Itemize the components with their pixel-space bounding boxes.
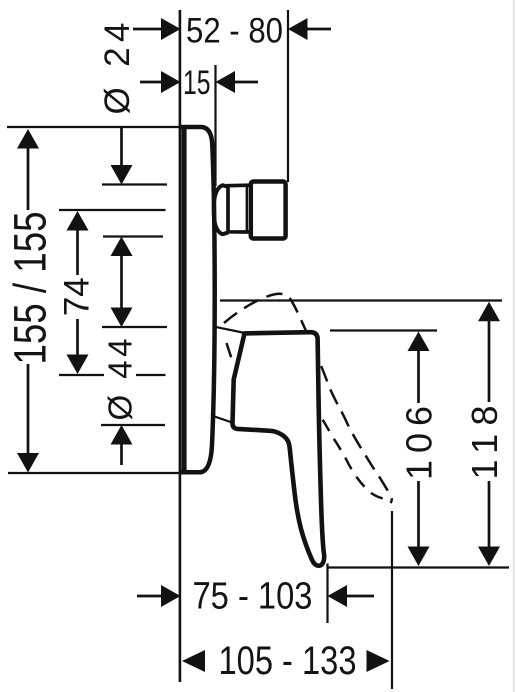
handle-tip extension line D <box>326 564 328 624</box>
svg-text:74: 74 <box>58 277 97 316</box>
wall extension line A <box>179 10 182 682</box>
dim 118 bottom arrow <box>478 547 500 567</box>
dim 118 top arrow <box>478 302 500 322</box>
sleeve extension line C <box>214 65 216 186</box>
handle tip tick <box>328 566 510 568</box>
dim 106 bottom arrow <box>408 547 430 567</box>
handle lever <box>233 332 325 566</box>
open-handle lower edge dash <box>227 343 234 363</box>
handle top tick <box>330 329 437 331</box>
sleeve (Ø24 stub) <box>214 185 229 234</box>
svg-text:75 - 103: 75 - 103 <box>193 576 313 618</box>
dim 74 line <box>76 230 79 276</box>
svg-text:106: 106 <box>399 406 440 480</box>
svg-text:155 / 155: 155 / 155 <box>5 212 56 365</box>
dim 155/155 bottom arrow <box>17 453 39 473</box>
valve stem cover bottom line <box>215 417 234 423</box>
spout axis tick <box>59 209 166 211</box>
svg-text:Ø 44: Ø 44 <box>102 339 139 421</box>
valve stem cover top line <box>215 327 245 333</box>
svg-text:52 - 80: 52 - 80 <box>186 11 283 50</box>
dim 106 top arrow <box>408 332 430 352</box>
spout adapter seam <box>246 186 248 232</box>
spout adapter body <box>228 185 250 232</box>
dim 118 line <box>488 321 491 403</box>
svg-text:15: 15 <box>183 64 211 102</box>
open-handle dashed outline <box>224 294 392 503</box>
sleeve top tick <box>102 183 167 185</box>
dim 74 bottom arrow <box>67 355 89 375</box>
escutcheon plate outline <box>179 127 215 472</box>
dim 52-80 right arrow <box>307 28 332 31</box>
dim 106 line <box>417 350 420 403</box>
open-handle dashed inner edge <box>319 413 384 499</box>
handle axis tick left part <box>59 374 104 376</box>
svg-text:118: 118 <box>464 406 505 480</box>
dim Ø24 lower arrow <box>111 237 133 257</box>
rosette bottom tick <box>101 424 165 426</box>
dim Ø24 upper arrow <box>120 128 123 166</box>
handle axis tick right part <box>136 374 166 376</box>
rosette top tick <box>102 326 167 328</box>
spout end cap <box>251 182 286 239</box>
sleeve bottom tick <box>103 235 163 237</box>
open-handle top tick <box>220 299 502 301</box>
dim 15 right arrow <box>234 81 258 84</box>
dim 52-80 left arrow <box>133 28 162 31</box>
dim 105-133 left arrow <box>182 650 205 672</box>
svg-text:105 - 133: 105 - 133 <box>219 639 357 683</box>
dim 15 left arrow <box>140 81 162 84</box>
plate bottom extension line <box>8 472 180 474</box>
dim 155/155 top arrow <box>17 129 39 149</box>
escutcheon plate front face <box>181 126 186 474</box>
dim 75-103 left arrow <box>137 595 162 598</box>
page right edge faint line <box>513 0 515 692</box>
dim 105-133 right arrow <box>367 650 390 672</box>
dim 75-103 right arrow <box>347 595 375 598</box>
dim 155/155 line <box>27 147 30 210</box>
svg-text:Ø 24: Ø 24 <box>98 23 137 115</box>
dim Ø44 upper arrow <box>111 308 133 328</box>
spout-end extension line B <box>287 10 289 182</box>
plate top extension line <box>7 126 182 128</box>
open-handle-tip extension line E <box>391 511 393 689</box>
dim Ø44 lower arrow <box>111 425 133 445</box>
dim 74 top arrow <box>67 211 89 231</box>
